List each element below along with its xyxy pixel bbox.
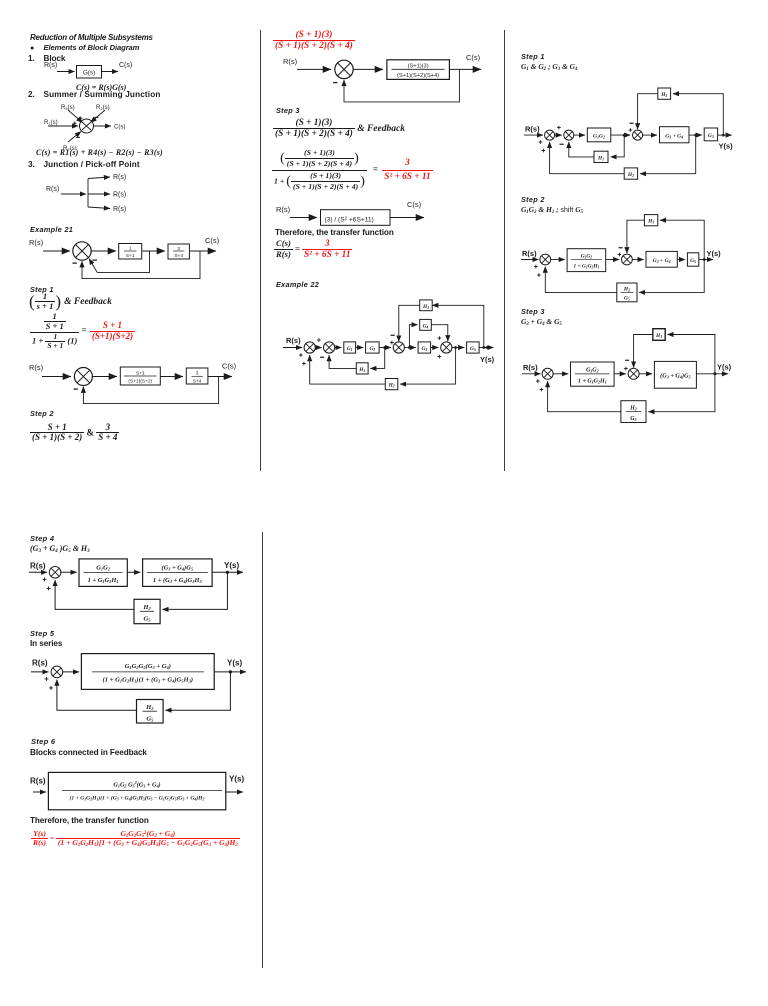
wire S1 to blockA — [553, 373, 568, 375]
wire output — [390, 217, 424, 219]
wire H1 to S2 — [329, 355, 356, 368]
wire output with node — [718, 134, 732, 136]
wire S1 to blockA — [551, 259, 565, 261]
wire block1 to block2 — [142, 250, 165, 252]
sign plus below S4 — [438, 355, 442, 359]
svg-text:(G3 + G4)G5: (G3 + G4)G5 — [162, 565, 194, 572]
svg-text:S+4: S+4 — [193, 379, 202, 385]
wire to G5 with node — [689, 134, 702, 136]
wire output — [208, 376, 232, 378]
summer S1 — [542, 368, 553, 379]
block G5 — [467, 342, 480, 353]
diagram: col3 step3 — [516, 322, 741, 428]
summer S1 — [540, 254, 551, 265]
svg-text:G5: G5 — [690, 258, 696, 264]
diagram: single block G(s) — [40, 59, 135, 83]
svg-text:G4: G4 — [423, 323, 429, 329]
summer S2 — [622, 254, 633, 265]
wire input — [283, 347, 302, 349]
svg-text:C(s): C(s) — [119, 62, 132, 69]
block G(s) — [77, 66, 102, 79]
svg-text:Y(s): Y(s) — [719, 142, 734, 151]
wire blockA to S2 — [614, 373, 626, 375]
wire S2 to G1 — [335, 347, 342, 349]
svg-text:S+4: S+4 — [174, 253, 183, 259]
formula final transfer function (red) — [31, 830, 240, 848]
block G3+G4 — [646, 251, 677, 267]
wire outer feedback — [82, 251, 200, 279]
wire H3 loop — [432, 305, 484, 347]
wire S2 to blockB — [639, 373, 652, 375]
svg-text:S+1: S+1 — [136, 370, 145, 376]
wire H2 loop — [640, 135, 696, 174]
block (3)/(S^2+6S+11) — [321, 210, 391, 226]
block G1G2/(1+G1G2H1) — [567, 249, 606, 272]
block H2/G5 — [621, 401, 646, 423]
wire to block1 — [92, 376, 117, 378]
block H3 — [644, 215, 657, 226]
wire inner feedback — [97, 251, 149, 272]
diagram: col3 step2 — [516, 210, 741, 310]
sign minus below S2 — [560, 143, 564, 145]
formula big fraction = red — [30, 312, 135, 350]
wire feedback — [344, 69, 459, 102]
wire input — [29, 571, 47, 573]
wire S2 to G1G2 — [574, 134, 585, 136]
sign plus above between — [317, 338, 321, 342]
svg-text:(1 + G1G2H1)(1 + (G3 + G4)G5H3: (1 + G1G2H1)(1 + (G3 + G4)G5H3]G5 − G1G2… — [70, 795, 205, 802]
vertical divider line 1 (page1 col1/col2) — [260, 30, 261, 471]
svg-text:G5: G5 — [630, 416, 636, 422]
svg-text:1 + G1G2H1: 1 + G1G2H1 — [578, 378, 607, 384]
wire input — [297, 68, 331, 70]
svg-text:G5: G5 — [470, 346, 476, 352]
diagram: example 21 — [25, 234, 235, 284]
svg-text:R(s): R(s) — [113, 174, 126, 181]
svg-text:G1: G1 — [347, 346, 353, 352]
wire G4 to S4 — [431, 325, 448, 342]
svg-text:R(s): R(s) — [276, 205, 291, 214]
wire H3 loop — [667, 335, 715, 374]
wire S1 to blockA — [61, 571, 77, 573]
svg-text:R(s): R(s) — [29, 363, 44, 372]
wire output with node — [214, 671, 246, 673]
sign plus below S1 — [539, 140, 543, 144]
wire input — [61, 193, 86, 195]
wire S3 to G3 with node — [404, 347, 415, 349]
block 1/(S+1) — [119, 244, 142, 260]
summer S2 — [564, 130, 574, 140]
svg-text:H3: H3 — [422, 304, 429, 310]
wire S1 to block — [63, 671, 79, 673]
block H3 — [653, 329, 665, 341]
wire H3 to S3 — [638, 94, 658, 130]
block G1G2 — [587, 128, 611, 142]
svg-text:R(s): R(s) — [525, 125, 540, 134]
sign plus lower S1 — [49, 686, 53, 690]
svg-text:R2(s): R2(s) — [96, 105, 110, 111]
svg-text:R(s): R(s) — [522, 249, 537, 258]
svg-text:R(s): R(s) — [286, 336, 301, 345]
diagram: summing junction — [38, 100, 130, 150]
svg-text:Y(s): Y(s) — [717, 363, 732, 372]
wire feedback to S1 — [55, 580, 134, 609]
formula transfer function — [274, 239, 352, 260]
svg-text:(3) / (S2 +6S+11): (3) / (S2 +6S+11) — [325, 215, 374, 223]
svg-text:G2: G2 — [369, 346, 375, 352]
block G1 — [344, 342, 356, 353]
svg-text:R(s): R(s) — [113, 206, 126, 213]
wire output with node — [212, 571, 243, 573]
sign plus lower S1 — [540, 388, 544, 392]
sign minus bottom — [76, 136, 80, 138]
svg-text:H2: H2 — [145, 704, 154, 711]
wire H2/G5 loop — [639, 260, 704, 293]
summer — [335, 60, 353, 78]
diagram: feedback with big block — [272, 50, 487, 106]
svg-text:1 + (G3 + G4)G3H3: 1 + (G3 + G4)G3H3 — [153, 577, 203, 584]
wire input — [521, 259, 539, 261]
wire G3 to S4 — [431, 347, 439, 349]
sign plus below S1 — [299, 353, 303, 357]
svg-text:H3: H3 — [660, 92, 667, 98]
wire output — [226, 791, 243, 793]
svg-text:R(s): R(s) — [44, 62, 57, 69]
svg-text:G(s): G(s) — [83, 69, 95, 76]
block G1G2/(1+G1G2H1) — [571, 362, 615, 386]
wire input — [57, 71, 75, 73]
sign plus lower S1 — [47, 586, 51, 590]
block H2/G5 — [617, 283, 637, 302]
block (G3+G4)G5/(1+(G3+G4)G5H3) — [143, 559, 213, 587]
summer S1 — [73, 242, 91, 260]
svg-text:G1G2 G52(G3 + G4): G1G2 G52(G3 + G4) — [113, 780, 160, 789]
formula step3 — [273, 118, 405, 139]
summer S4 — [441, 342, 452, 353]
summer S1 — [51, 666, 63, 678]
summer S3 — [633, 130, 643, 140]
svg-text:R(s): R(s) — [30, 777, 46, 786]
svg-text:Y(s): Y(s) — [227, 659, 242, 668]
sign plus left S3 — [390, 341, 394, 345]
sign plus lower S1 — [537, 273, 541, 277]
wire block1 to block2 — [160, 376, 183, 378]
wire S3 to G3+G4 — [643, 134, 657, 136]
svg-text:R(s): R(s) — [523, 363, 538, 372]
svg-text:(G3 + G4)G5: (G3 + G4)G5 — [660, 372, 690, 379]
svg-text:H2: H2 — [629, 405, 637, 411]
vertical divider line 2 (page1 col2/col3) — [504, 30, 505, 471]
svg-text:H3: H3 — [655, 333, 662, 339]
formula step2 — [30, 423, 119, 444]
svg-text:G5: G5 — [144, 615, 152, 622]
sign plus above S4 — [438, 336, 442, 340]
wire H1 to S2 — [569, 142, 594, 157]
wire feedback loop — [162, 572, 227, 609]
sign plus lower S1 — [542, 149, 546, 153]
summer — [74, 368, 92, 386]
wire H2/G5 to S1 — [548, 381, 621, 412]
svg-text:1 + G1G2H1: 1 + G1G2H1 — [573, 264, 599, 270]
wire output — [449, 68, 481, 70]
block H2/G5 — [134, 599, 160, 623]
wire input — [33, 791, 46, 793]
wire H2/G5 to S1 — [545, 267, 617, 293]
svg-text:R(s): R(s) — [283, 57, 298, 66]
diagram: step4 — [26, 556, 251, 628]
wire output with node — [479, 347, 493, 349]
sign minus above S3 — [630, 122, 634, 124]
wire input — [43, 250, 70, 252]
svg-text:R1(s): R1(s) — [44, 120, 58, 126]
wire input — [522, 373, 541, 375]
summer S1 — [545, 130, 555, 140]
sign plus left S2 — [618, 253, 622, 257]
svg-text:(1 + G1G2H1)(1 + (G3 + G4)G5H3: (1 + G1G2H1)(1 + (G3 + G4)G5H3) — [103, 677, 193, 684]
wire to block — [353, 68, 383, 70]
wire junction vertical — [87, 179, 89, 208]
wire H3 to S3 — [399, 305, 420, 341]
block G3 — [418, 342, 431, 353]
svg-text:C(s): C(s) — [466, 53, 481, 62]
red fraction top — [273, 30, 355, 51]
diagram: step6 single block — [26, 765, 251, 817]
block G1G2/(1+G1G2H1) — [79, 559, 127, 587]
sign plus top — [79, 117, 82, 120]
wire H2 to S1 — [550, 142, 625, 174]
wire H3 loop — [673, 94, 723, 135]
svg-text:(S+1)(S+2): (S+1)(S+2) — [128, 378, 152, 384]
wire R2 diagonal in — [91, 110, 106, 123]
svg-text:G1G2G5(G3 + G4): G1G2G5(G3 + G4) — [125, 663, 171, 670]
svg-text:H1: H1 — [358, 367, 365, 373]
svg-text:Y(s): Y(s) — [229, 775, 244, 784]
block (S+1)/((S+1)(S+2)) — [120, 367, 160, 385]
wire H2/G5 loop — [648, 374, 715, 412]
summer circle — [80, 119, 94, 133]
wire G2 to S3 with node — [379, 347, 391, 349]
block G2 — [366, 342, 380, 353]
wire G1 to G2 — [356, 347, 364, 349]
wire branch mid — [88, 193, 110, 195]
svg-text:C(s): C(s) — [205, 236, 220, 245]
block H2 — [385, 379, 398, 390]
summer S3 — [393, 342, 404, 353]
svg-text:G1G2: G1G2 — [581, 254, 593, 260]
wire S2 to blockB — [632, 259, 643, 261]
sign minus — [74, 388, 78, 390]
block (S+1)(3)/((S+1)(S+2)(S+4)) — [387, 60, 450, 80]
summer S2 — [324, 342, 335, 353]
diagram: step5 — [26, 650, 251, 728]
wire output with node — [699, 259, 713, 261]
svg-text:H2: H2 — [388, 383, 395, 389]
svg-text:3: 3 — [196, 371, 199, 377]
svg-text:R4(s): R4(s) — [61, 105, 75, 111]
wire input — [31, 671, 49, 673]
block 3/(S+4) — [186, 368, 208, 384]
svg-text:Y(s): Y(s) — [480, 355, 495, 364]
wire input — [524, 134, 543, 136]
block (G3+G4)G5 — [654, 361, 696, 388]
wire H3 to S2 — [627, 220, 645, 253]
svg-text:H2: H2 — [627, 172, 634, 178]
wire blockA to blockB — [127, 571, 140, 573]
sign plus left S2 — [624, 367, 628, 371]
svg-text:H3: H3 — [647, 219, 654, 225]
sign minus above S3 — [391, 334, 395, 336]
block H3 — [658, 88, 671, 99]
wire R4 diagonal in — [68, 110, 83, 123]
svg-text:G1G2: G1G2 — [586, 368, 599, 374]
wire H3 loop — [660, 220, 704, 259]
sign plus between — [557, 126, 561, 130]
block G5 — [687, 253, 698, 266]
diagram: step1 result — [25, 356, 240, 408]
sign plus below S1 — [45, 677, 49, 681]
diagram: pick-off point — [40, 168, 135, 213]
svg-text:H2: H2 — [142, 604, 151, 611]
block H1 — [356, 363, 368, 374]
svg-text:R(s): R(s) — [32, 659, 48, 668]
block H1 — [594, 151, 608, 162]
svg-text:R(s): R(s) — [46, 186, 59, 193]
block G3+G4 — [660, 127, 690, 143]
wire blockA to S2 — [606, 259, 620, 261]
wire feedback loop — [165, 672, 230, 710]
wire R1 in — [48, 125, 78, 127]
block big series — [81, 654, 214, 690]
wire S1-S2 — [315, 347, 321, 349]
wire H2 to S1 — [310, 355, 386, 384]
wire output — [102, 71, 119, 73]
sign plus below S1 — [536, 379, 540, 383]
wire blockB to G5 — [677, 259, 685, 261]
wire feedback to S1 — [57, 680, 137, 711]
svg-text:G3 + G4: G3 + G4 — [653, 258, 671, 264]
block H3 — [420, 300, 433, 311]
svg-text:C(s): C(s) — [222, 362, 237, 371]
svg-text:S+1: S+1 — [126, 253, 135, 259]
wire H2 loop — [400, 348, 456, 385]
wire branch top — [88, 177, 110, 179]
wire S1-S2 — [555, 134, 562, 136]
sign minus above S2 — [619, 247, 623, 249]
svg-text:G5: G5 — [624, 295, 630, 301]
diagram: example 22 — [270, 292, 500, 392]
wire output — [189, 250, 216, 252]
diagram: col3 step1 — [516, 84, 741, 184]
block H2 — [624, 168, 637, 179]
svg-text:G5: G5 — [708, 133, 714, 139]
block G4 — [420, 319, 432, 330]
sign minus below S2 — [320, 356, 324, 358]
summer S2 — [628, 368, 639, 379]
wire input — [290, 217, 317, 219]
wire H3 to S2 — [634, 335, 653, 368]
formula big nested — [272, 148, 433, 192]
svg-text:R(s): R(s) — [29, 238, 44, 247]
svg-text:(S+1)(3): (S+1)(3) — [408, 64, 429, 70]
wire input — [42, 376, 71, 378]
svg-text:R(s): R(s) — [30, 562, 46, 571]
sign plus left — [73, 122, 76, 125]
svg-text:Y(s): Y(s) — [707, 249, 722, 258]
summer S1 — [49, 567, 61, 579]
wire output with node — [696, 373, 728, 375]
svg-text:G1G2: G1G2 — [593, 133, 605, 139]
wire R3 diagonal in — [68, 132, 81, 143]
summer S1 — [304, 342, 315, 353]
svg-text:R(s): R(s) — [113, 192, 126, 199]
svg-text:C(s): C(s) — [407, 200, 422, 209]
svg-text:H2: H2 — [623, 287, 630, 293]
wire H1 loop — [370, 348, 384, 369]
wire feedback — [83, 377, 218, 404]
svg-text:G5: G5 — [146, 715, 154, 722]
block G5 — [704, 128, 717, 141]
svg-text:G3 + G4: G3 + G4 — [665, 133, 683, 139]
wire G1G2 to S3 with node — [611, 134, 631, 136]
wire C(s) out — [94, 125, 112, 127]
wire S4 to G5 with node — [452, 347, 464, 349]
wire branch bottom — [88, 207, 110, 209]
diagram: single block result — [272, 200, 432, 230]
svg-text:G3: G3 — [422, 346, 428, 352]
block feedback result — [48, 772, 225, 809]
sign plus left S3 — [629, 128, 633, 132]
sign plus lower — [302, 362, 306, 366]
sign plus below S1 — [534, 265, 538, 269]
svg-text:Y(s): Y(s) — [224, 561, 239, 570]
svg-text:H1: H1 — [597, 155, 604, 161]
sign minus — [333, 82, 337, 84]
sign plus below S1 — [43, 577, 47, 581]
svg-text:(S+1)(S+2)(S+4): (S+1)(S+2)(S+4) — [397, 73, 439, 79]
svg-text:G1G2: G1G2 — [96, 565, 110, 572]
block 3/(S+4) — [168, 244, 189, 259]
sign minus inner — [93, 259, 97, 261]
sign minus outer — [73, 262, 77, 264]
svg-text:C(s): C(s) — [114, 125, 125, 131]
sign minus top right — [95, 116, 99, 118]
wire H1 loop — [611, 135, 625, 157]
formula (1/(s+1)) & Feedback — [29, 292, 112, 312]
sign minus above S2 — [625, 359, 629, 361]
block H2/G5 — [137, 700, 164, 724]
vertical divider line 3 (page2 col1/col2) — [262, 532, 263, 968]
wire S1 to block1 — [91, 250, 116, 252]
wire G4 branch up — [409, 325, 417, 348]
svg-text:1 + G1G2H1: 1 + G1G2H1 — [88, 577, 119, 584]
